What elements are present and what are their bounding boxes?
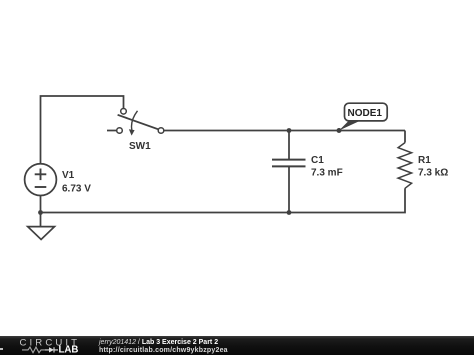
svg-text:7.3 kΩ: 7.3 kΩ [418,168,448,179]
svg-text:NODE1: NODE1 [348,108,383,119]
svg-text:LAB: LAB [59,345,79,355]
svg-text:6.73 V: 6.73 V [62,183,91,194]
svg-text:7.3 mF: 7.3 mF [311,168,343,179]
svg-text:V1: V1 [62,170,75,181]
svg-text:C1: C1 [311,155,324,166]
svg-text:SW1: SW1 [129,141,151,152]
svg-text:R1: R1 [418,155,431,166]
